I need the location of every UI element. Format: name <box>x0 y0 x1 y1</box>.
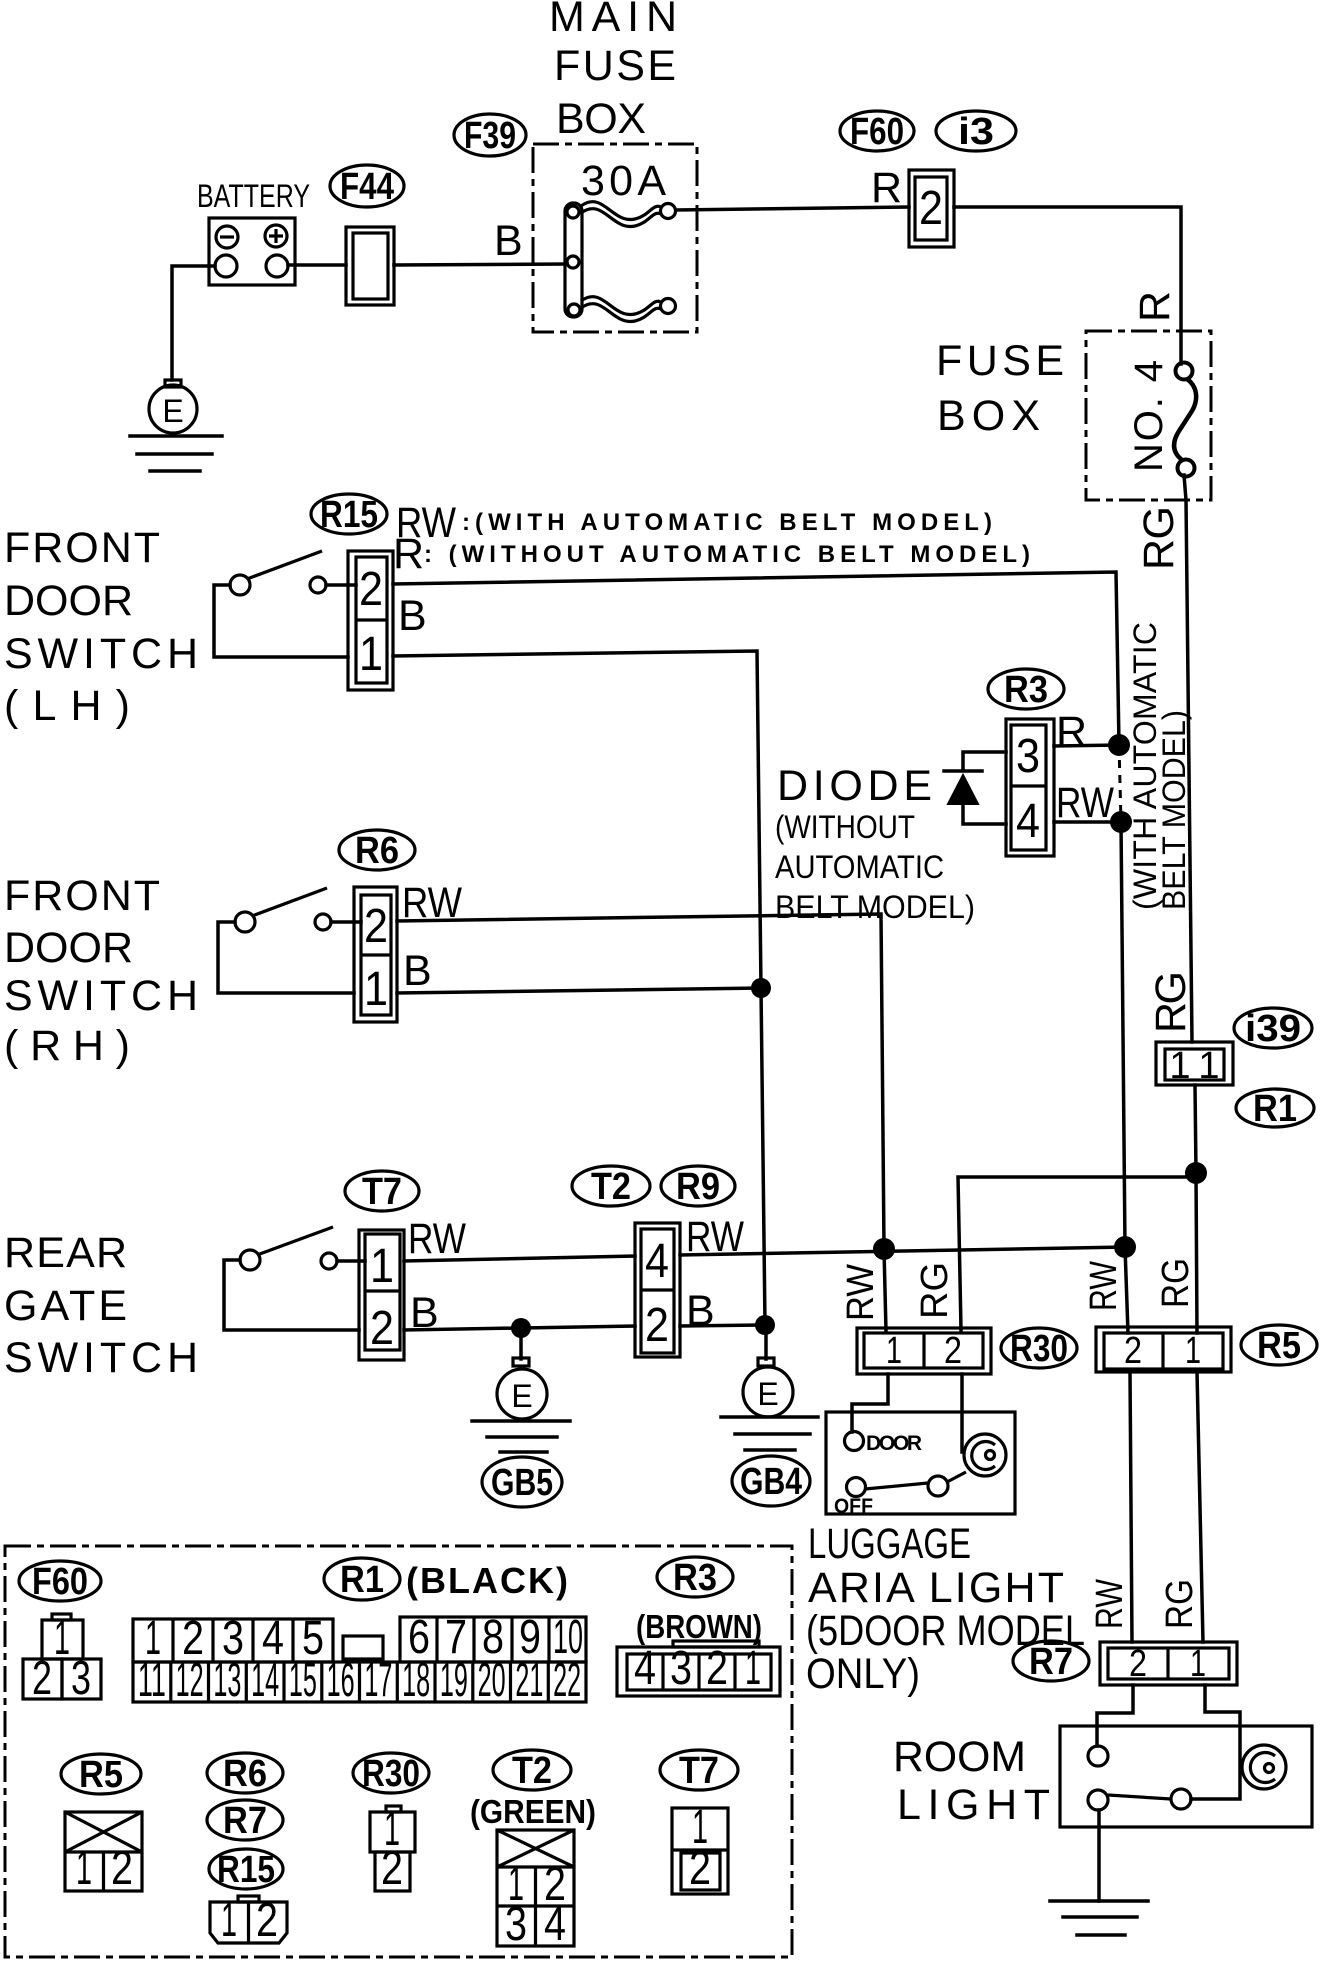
connector label R7 <box>1013 1641 1089 1683</box>
wire pin11 down to node RG <box>1195 1085 1196 1173</box>
svg-text:1: 1 <box>76 1842 92 1895</box>
svg-text:i3: i3 <box>958 111 994 153</box>
svg-text:E: E <box>511 1378 532 1414</box>
svg-text:18: 18 <box>402 1654 430 1707</box>
fuse box no.4 outline <box>1086 331 1211 500</box>
svg-text:R: R <box>1056 708 1087 756</box>
svg-text:1: 1 <box>370 1240 394 1293</box>
svg-text:R15: R15 <box>217 1849 275 1891</box>
front door switch LH symbol <box>214 551 356 657</box>
svg-text:F60: F60 <box>32 1561 88 1603</box>
svg-text:AUTOMATIC: AUTOMATIC <box>775 849 944 885</box>
svg-text:13: 13 <box>213 1654 241 1707</box>
wire battery negative to ground E <box>172 266 215 380</box>
svg-text:(WITHOUT: (WITHOUT <box>775 809 915 845</box>
svg-text:DIODE: DIODE <box>777 762 932 810</box>
svg-text:R1: R1 <box>340 1559 384 1601</box>
svg-text:RG: RG <box>1147 971 1195 1033</box>
svg-text:3: 3 <box>505 1898 527 1951</box>
svg-text:T7: T7 <box>679 1750 719 1792</box>
svg-text:2: 2 <box>919 182 943 235</box>
connector label F60 <box>840 111 914 153</box>
wire battery to F44 <box>288 263 346 267</box>
svg-text:DOOR: DOOR <box>866 1432 922 1455</box>
main fuse box outline <box>533 144 697 332</box>
connector label i3 <box>936 111 1016 153</box>
connector F44 box <box>346 227 394 305</box>
svg-text:T7: T7 <box>362 1171 402 1213</box>
wire R3 pin4 to node <box>1054 820 1121 824</box>
wire T7 pin1 to T2 pin4 <box>404 1256 635 1261</box>
room light box <box>1060 1726 1312 1827</box>
svg-text:2: 2 <box>359 563 383 616</box>
svg-text:2: 2 <box>1129 1643 1147 1685</box>
luggage light OFF contact <box>847 1478 866 1497</box>
svg-text:R6: R6 <box>355 830 399 872</box>
rear gate switch symbol <box>224 1227 365 1330</box>
title MAIN FUSE BOX <box>549 0 677 143</box>
svg-text:22: 22 <box>553 1654 581 1707</box>
svg-text:4: 4 <box>645 1235 669 1288</box>
svg-text:3: 3 <box>1016 730 1040 783</box>
wire B vertical down to rear B wire <box>761 988 765 1325</box>
node GB5 tap <box>511 1318 531 1338</box>
svg-text:F44: F44 <box>340 166 394 208</box>
svg-text:(GREEN): (GREEN) <box>470 1793 596 1830</box>
label DIODE (WITHOUT AUTOMATIC BELT MODEL) <box>775 762 975 925</box>
svg-text:2: 2 <box>111 1842 133 1895</box>
svg-text:LUGGAGE: LUGGAGE <box>808 1520 971 1568</box>
room light switch <box>1088 1790 1108 1810</box>
connector T7 pinout <box>672 1801 728 1895</box>
wire R7 pin1 to room light lamp <box>1191 1685 1240 1799</box>
svg-text:GB4: GB4 <box>740 1461 802 1503</box>
label REAR GATE SWITCH <box>4 1229 198 1382</box>
svg-text:2: 2 <box>706 1642 728 1695</box>
panel label T7 <box>660 1750 738 1792</box>
svg-text:2: 2 <box>645 1299 669 1352</box>
svg-text:R30: R30 <box>1010 1328 1068 1370</box>
ground E (battery) <box>130 380 222 471</box>
svg-text:RG: RG <box>1159 1579 1201 1629</box>
svg-text:FRONT: FRONT <box>4 872 160 920</box>
svg-text:RG: RG <box>1155 1258 1197 1308</box>
svg-text:20: 20 <box>478 1654 506 1707</box>
label FRONT DOOR SWITCH (RH) <box>4 872 198 1070</box>
svg-text:R6: R6 <box>223 1753 267 1795</box>
ground (room light) <box>1050 1901 1148 1935</box>
connector detail panel border <box>5 1546 792 1957</box>
svg-text:BELT MODEL): BELT MODEL) <box>775 889 975 925</box>
svg-text:2: 2 <box>689 1842 711 1895</box>
node GB4 tap <box>755 1315 775 1335</box>
wire R15 pin2 R/RW to right vertical <box>393 572 1119 744</box>
svg-text:1: 1 <box>1198 1045 1219 1087</box>
wire RW node down to R30 pin1 <box>884 1249 886 1331</box>
svg-text:B: B <box>494 217 523 265</box>
luggage light DOOR contact <box>845 1432 864 1451</box>
svg-text:BOX: BOX <box>937 392 1040 440</box>
svg-text:R3: R3 <box>1004 669 1048 711</box>
luggage light lamp <box>964 1434 1006 1476</box>
svg-text:12: 12 <box>176 1654 204 1707</box>
svg-text:R5: R5 <box>1257 1325 1301 1367</box>
panel label R7 <box>207 1800 283 1842</box>
svg-text:1: 1 <box>359 628 383 681</box>
room light lamp <box>1242 1745 1286 1789</box>
fuse element no.4 <box>1174 363 1196 477</box>
diode D1 symbol <box>944 752 1006 824</box>
svg-text:15: 15 <box>289 1654 317 1707</box>
connector label R3 <box>988 669 1064 711</box>
connector T7 box pins 1/2 <box>359 1230 404 1360</box>
svg-text:NO. 4: NO. 4 <box>1127 360 1171 472</box>
svg-text:ARIA LIGHT: ARIA LIGHT <box>808 1564 1064 1612</box>
label FRONT DOOR SWITCH (LH) <box>4 524 198 730</box>
luggage light switch blade <box>928 1476 948 1496</box>
svg-text:1: 1 <box>1169 1045 1190 1087</box>
connector R5 box pins 2/1 <box>1096 1327 1231 1372</box>
svg-text:F60: F60 <box>850 111 904 153</box>
node RW at R30 <box>873 1238 895 1260</box>
svg-text:1: 1 <box>1190 1643 1206 1685</box>
wire R30 pin1 to luggage light DOOR contact <box>852 1374 888 1432</box>
connector F60 pinout <box>23 1612 101 1705</box>
svg-text:2: 2 <box>256 1894 278 1947</box>
connector label F39 <box>454 114 526 157</box>
note R : (WITHOUT AUTOMATIC BELT MODEL) <box>393 530 1030 578</box>
luggage area light box <box>826 1412 1015 1514</box>
panel label R3 (BROWN) <box>636 1557 762 1645</box>
wire T7 pin2 to T2 pin2 with ground tap <box>404 1326 635 1330</box>
svg-text:R3: R3 <box>673 1557 717 1599</box>
panel label R30 <box>353 1753 429 1795</box>
svg-text:2: 2 <box>370 1302 394 1355</box>
note (WITH AUTOMATIC BELT MODEL) rotated <box>1127 622 1192 910</box>
wire T2 pin2 B to GB4 <box>680 1325 765 1326</box>
svg-text:RG: RG <box>1135 506 1183 570</box>
node diode R <box>1108 734 1130 756</box>
svg-text:17: 17 <box>364 1654 392 1707</box>
wire R5 pin2 down to R7 pin2 <box>1130 1372 1132 1642</box>
wire R7 pin2 to room light switch <box>1097 1685 1133 1746</box>
panel label T2 (GREEN) <box>470 1750 596 1830</box>
svg-text:GATE: GATE <box>4 1282 127 1330</box>
svg-text:11: 11 <box>138 1654 166 1707</box>
svg-text:OFF: OFF <box>834 1495 873 1518</box>
svg-text:1: 1 <box>745 1642 761 1695</box>
wire fuse no.4 to i39, label RG rotated <box>1184 475 1192 1042</box>
svg-text:RG: RG <box>914 1262 956 1319</box>
connector label R5 <box>1241 1325 1317 1367</box>
title FUSE BOX <box>936 337 1064 440</box>
label LUGGAGE ARIA LIGHT (5DOOR MODEL ONLY) <box>806 1520 1085 1698</box>
connector R6/R7/R15 pinout <box>210 1894 287 1947</box>
wire R6 pin2 RW right and down to node <box>397 914 884 1248</box>
connector R6 box pins 2/1 <box>354 887 397 1022</box>
svg-text:DOOR: DOOR <box>4 577 133 625</box>
svg-text:MAIN: MAIN <box>549 0 677 41</box>
connector i3/F60 pin 2 box <box>909 170 954 247</box>
wire trunk RW down to node at rear <box>1121 822 1125 1247</box>
svg-text:FRONT: FRONT <box>4 524 160 572</box>
svg-text:2: 2 <box>1124 1330 1142 1372</box>
svg-text:B: B <box>686 1287 715 1335</box>
label ROOM LIGHT <box>893 1733 1050 1829</box>
connector R1 pinout row1 pins 6-10 <box>400 1611 586 1664</box>
connector R30 pinout <box>370 1803 415 1895</box>
connector R3 box pins 3/4 <box>1006 719 1054 856</box>
node RW at R5 <box>1114 1236 1136 1258</box>
svg-text:REAR: REAR <box>4 1229 127 1277</box>
svg-text:1: 1 <box>54 1612 70 1665</box>
connector T2 box pins 4/2 <box>635 1223 680 1357</box>
svg-text:3: 3 <box>71 1652 91 1705</box>
connector T2 pinout <box>497 1830 574 1951</box>
svg-text:GB5: GB5 <box>491 1462 553 1504</box>
svg-text:R30: R30 <box>362 1753 420 1795</box>
svg-text:E: E <box>162 393 183 429</box>
connector label F44 <box>330 165 404 208</box>
battery B1 <box>197 178 310 285</box>
svg-text:RW: RW <box>1083 1261 1125 1311</box>
panel label R1 (BLACK) <box>324 1558 568 1601</box>
svg-text:RW: RW <box>1056 779 1114 827</box>
connector R1 key notch <box>343 1636 383 1659</box>
svg-text:R: R <box>871 164 902 212</box>
wire R3 pin3 to node <box>1054 745 1119 746</box>
wire RW node down to R5 pin2 <box>1125 1247 1128 1333</box>
svg-text:4: 4 <box>1016 795 1040 848</box>
wire R30 pin2 to luggage light lamp <box>960 1374 964 1452</box>
connector R1 pinout row1 pins 1-5 <box>133 1612 333 1665</box>
wire room light to ground <box>1097 1810 1101 1901</box>
svg-text:R5: R5 <box>79 1754 123 1796</box>
dashed wire between diode nodes <box>1119 745 1121 822</box>
svg-text:R9: R9 <box>676 1166 720 1208</box>
svg-text:ONLY): ONLY) <box>806 1650 920 1698</box>
wire RG down to R5 pin1 <box>1196 1173 1197 1333</box>
svg-text:R1: R1 <box>1253 1088 1297 1130</box>
wire main fuse box to connector i3 pin 2, label R <box>676 207 909 210</box>
svg-text:R15: R15 <box>320 494 378 536</box>
svg-text:R: R <box>393 530 424 578</box>
svg-text:F39: F39 <box>464 115 516 157</box>
node diode RW <box>1110 811 1132 833</box>
connector label R1 <box>1236 1088 1314 1130</box>
junction node B wires <box>751 978 771 998</box>
room light input contact <box>1088 1746 1108 1766</box>
svg-text:T2: T2 <box>512 1750 552 1792</box>
svg-text:1: 1 <box>1185 1330 1201 1372</box>
svg-text:14: 14 <box>251 1654 279 1707</box>
svg-text:2: 2 <box>364 900 388 953</box>
svg-text:DOOR: DOOR <box>4 924 133 972</box>
connector label R15 <box>311 494 387 536</box>
svg-text:4: 4 <box>544 1898 566 1951</box>
svg-text:E: E <box>757 1376 778 1412</box>
wire R15 pin1 B to vertical node <box>393 651 761 988</box>
ground GB4 <box>721 1325 818 1506</box>
connector label T2 <box>572 1166 650 1208</box>
note RW : (WITH AUTOMATIC BELT MODEL) <box>396 499 992 547</box>
svg-text:1: 1 <box>886 1330 902 1372</box>
svg-text:BATTERY: BATTERY <box>197 178 310 214</box>
connector i39/R1 pin 11 box <box>1156 1042 1233 1087</box>
svg-text:1: 1 <box>364 963 388 1016</box>
fusible link element in main fuse box <box>565 202 676 322</box>
svg-text:i39: i39 <box>1245 1008 1301 1050</box>
wire R5 pin1 down to R7 pin1 <box>1197 1372 1203 1642</box>
panel label F60 <box>19 1561 101 1603</box>
wire R6 pin1 B to vertical junction <box>397 988 761 993</box>
svg-text:R: R <box>1131 291 1179 322</box>
svg-text:BELT MODEL): BELT MODEL) <box>1156 710 1192 910</box>
panel label R15 <box>209 1849 283 1891</box>
svg-text:4: 4 <box>634 1642 656 1695</box>
svg-text:2: 2 <box>944 1330 962 1372</box>
front door switch RH symbol <box>218 888 361 993</box>
svg-text:B: B <box>398 592 427 640</box>
connector R30 box pins 1/2 <box>857 1328 991 1374</box>
svg-text:30A: 30A <box>581 157 666 205</box>
svg-text:R7: R7 <box>1029 1641 1073 1683</box>
svg-text:R7: R7 <box>223 1800 267 1842</box>
svg-text:BOX: BOX <box>556 95 646 143</box>
svg-text:1: 1 <box>221 1894 237 1947</box>
connector R3 pinout <box>617 1641 780 1696</box>
wire RG branch to R30 pin2 <box>958 1177 1196 1330</box>
connector R5 pinout <box>65 1812 142 1895</box>
svg-text::(WITH AUTOMATIC BELT MODEL): :(WITH AUTOMATIC BELT MODEL) <box>462 509 992 536</box>
svg-text:2: 2 <box>381 1842 403 1895</box>
svg-text:16: 16 <box>327 1654 355 1707</box>
svg-text:RW: RW <box>840 1264 882 1321</box>
connector R7 box pins 2/1 <box>1100 1642 1237 1685</box>
svg-text:B: B <box>403 947 432 995</box>
svg-text:RW: RW <box>1089 1579 1131 1629</box>
panel label R6 <box>207 1753 283 1795</box>
svg-text:19: 19 <box>440 1654 468 1707</box>
svg-text:2: 2 <box>32 1652 52 1705</box>
svg-text:21: 21 <box>515 1654 543 1707</box>
panel label R5 <box>61 1754 141 1796</box>
svg-text:RW: RW <box>408 1215 466 1263</box>
connector label i39 <box>1234 1008 1312 1050</box>
connector label R9 <box>661 1166 735 1208</box>
svg-text:LIGHT: LIGHT <box>897 1781 1050 1829</box>
connector label R30 <box>1001 1328 1077 1370</box>
svg-text:3: 3 <box>670 1642 692 1695</box>
wire T2 pin4 RW to trunk nodes <box>680 1247 1125 1255</box>
svg-text:ROOM: ROOM <box>893 1733 1026 1781</box>
connector label T7 <box>345 1171 419 1213</box>
ground GB5 <box>472 1328 570 1507</box>
svg-text:(BLACK): (BLACK) <box>406 1560 568 1601</box>
node RG branch <box>1185 1162 1207 1184</box>
wire F44 to main fuse box, label B <box>394 264 567 265</box>
connector R15 box pins 2/1 <box>348 551 393 690</box>
connector label R6 <box>339 830 415 872</box>
wire i3 pin2 to fuse box no.4, label R rotated <box>954 207 1181 364</box>
connector R1 pinout row2 pins 11-22 <box>133 1654 586 1707</box>
svg-text:T2: T2 <box>591 1166 631 1208</box>
